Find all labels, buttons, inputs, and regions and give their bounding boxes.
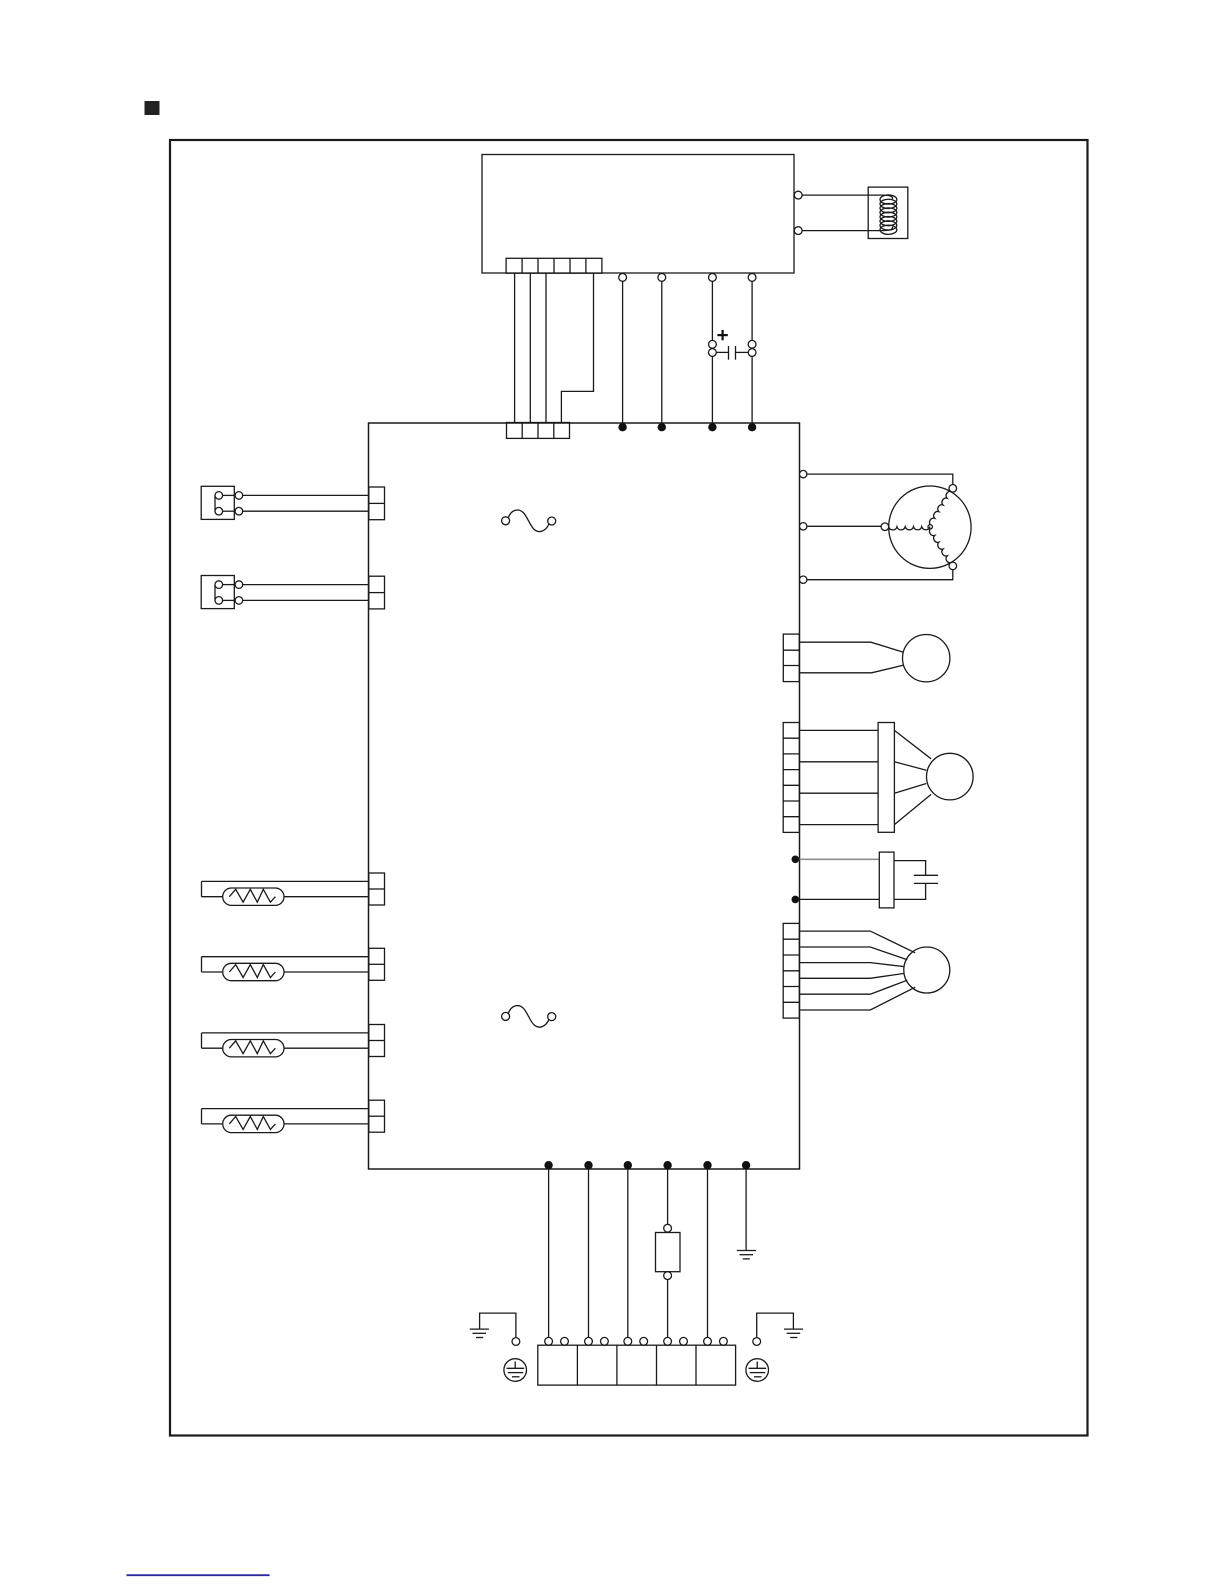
pin P4 of PCB2 with wire to main board [748,274,756,424]
heater element R1 [202,881,369,905]
earth terminal pin left [512,1338,520,1346]
junction node dot B4 on main board bottom [663,1161,671,1169]
wire B5 to terminal block [707,1169,709,1337]
wire FM1 lead 1 [799,729,878,731]
capacitor C1 terminals on wire P4 [748,340,756,356]
ground symbol GND3 right [784,1329,803,1337]
wire FM2 lead 4 [799,973,904,978]
motor M1 winding V-center [889,527,930,530]
junction node dot B3 on main board bottom [624,1161,632,1169]
pin P5 of PCB2 right side [794,191,802,199]
pin P7 main board right edge [800,470,807,477]
wire FM1 lead 2 [799,761,878,763]
capacitor C2 plates [914,875,938,883]
protective earth symbol PE1 left [504,1359,527,1382]
wire P6 to coil L1 [802,227,892,231]
junction node dot B1 on main board bottom [544,1161,552,1169]
s-curve link S1 inside main board [502,510,556,532]
capacitor C1 plates and stubs [716,346,748,360]
heater element R3 [202,1033,369,1057]
wire FM2 lead 5 [799,980,907,994]
junction node dot B5 on main board bottom [703,1161,711,1169]
wire harness PCB2 to main board pins 1-3 [515,273,546,422]
connector CN-B 4-pin on main board [507,423,570,439]
wire FM2 lead 1 [799,931,915,953]
connector 2-pin for R2 on main board edge [369,948,385,980]
motor M1 winding U-center [930,491,952,525]
wire P9 to motor M1 terminal W [807,570,953,580]
wire earth right [757,1313,794,1338]
capacitor C1 terminals on wire P3 [709,340,717,356]
wire FM2 lead 3 [799,963,904,967]
junction node dot P2 on main board [658,423,666,431]
connector 7-pin for fan motor FM1 [783,723,799,833]
ground symbol GND1 [737,1251,756,1259]
wire B6 to ground [745,1169,747,1251]
wire P8 to motor M1 terminal V [807,525,881,527]
wire TH1 top lead [800,642,904,652]
connector 2-pin for SW2 on main board edge [369,576,385,609]
wire B1 to terminal block [548,1169,550,1337]
wire M2 top lead (grey) [800,858,880,860]
s-curve link S2 inside main board [502,1006,556,1028]
terminal TB1-4 pins [664,1337,688,1345]
junction node dot P4 on main board [748,423,756,431]
motor M1 winding W-center [930,529,952,563]
coil L1 winding in box [868,187,908,238]
pin P6 of PCB2 right side [794,227,802,235]
junction node dot P1 on main board [618,423,626,431]
terminal TB1-5 pins [704,1337,728,1345]
motor M1 terminal U [949,485,957,493]
door switch SW1 [201,486,243,519]
wire B4 lower segment [667,1280,669,1338]
main control board PCB1 [369,423,800,1169]
wire FM2 lead 6 [799,987,915,1010]
wire earth left [480,1313,516,1338]
wire pin6 jog to pin4 [561,273,593,422]
connector 2-pin for R4 on main board edge [369,1100,385,1132]
fan motor FM1 body [927,753,974,800]
junction node dot P3 on main board [708,423,716,431]
wire M2 bottom lead [800,898,880,900]
motor M1 terminal W [949,562,957,570]
wire FM2 lead 2 [799,947,907,960]
motor M2 body bar [879,852,894,908]
connector 2-pin for R3 on main board edge [369,1025,385,1057]
terminal TB1-1 pins [545,1337,569,1345]
wire B4 upper segment [667,1169,669,1224]
junction node dot B2 on main board bottom [584,1161,592,1169]
wire FM1 lead 3 [799,792,878,794]
pin P1 of PCB2 with wire to main board [619,274,627,424]
fan motor FM1 frame bar [878,723,894,833]
FM1 fan-out wires to motor [894,730,931,824]
fuse F1 [656,1224,681,1279]
wire FM1 lead 4 [799,824,878,826]
connector 3-pin for sensor TH1 [783,634,799,682]
connector 2-pin for R1 on main board edge [369,873,385,905]
wire P5 to coil L1 [802,195,892,199]
ground symbol GND2 left [470,1329,489,1337]
pin P3 of PCB2 with wire to main board [709,274,717,424]
connector CN-A 6-pin on PCB2 [506,258,602,273]
pin P2 of PCB2 with wire to main board [658,274,666,424]
connector 2-pin for SW1 on main board edge [369,487,385,520]
junction node dot B6 on main board bottom [742,1161,750,1169]
terminal TB1-2 pins [585,1337,609,1345]
heater element R4 [202,1109,369,1133]
wire P7 to motor M1 terminal U [807,474,953,484]
display PCB board PCB2 [482,155,794,274]
terminal block TB1 [538,1345,736,1385]
wires SW1 to main board [243,495,369,511]
motor M1 terminal V [881,523,889,531]
motor M1 body circle [889,486,971,568]
earth terminal pin right [753,1338,761,1346]
node dot M2 top on main board edge [792,856,800,864]
node dot M2 bottom on main board edge [792,896,800,904]
wire TH1 bottom lead [800,665,904,673]
wire B3 to terminal block [627,1169,629,1337]
capacitor C2 wiring loop [894,861,926,900]
capacitor C1 polarity plus sign [717,330,727,340]
wires SW2 to main board [243,585,369,601]
protective earth symbol PE2 right [746,1359,769,1382]
pin P9 main board right edge [800,576,807,583]
door switch SW2 [201,576,243,609]
heater element R2 [202,957,369,981]
connector 6-pin for fan motor FM2 [783,923,799,1018]
sensor TH1 bulb [903,635,950,682]
motor M1 star point [928,525,932,529]
terminal TB1-3 pins [624,1337,648,1345]
pin P8 main board right edge [800,523,807,530]
wire B2 to terminal block [588,1169,590,1337]
fan motor FM2 body [904,947,950,993]
